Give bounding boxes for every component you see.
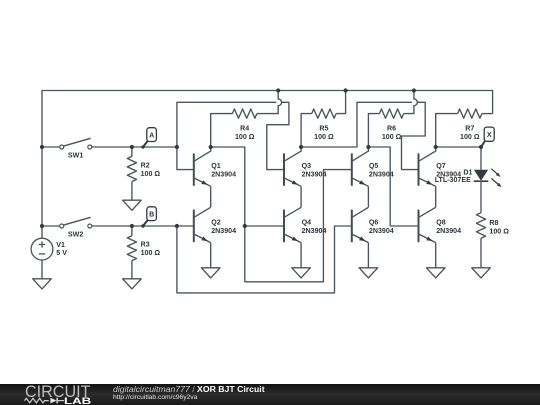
ground below Q4 (292, 268, 311, 278)
svg-text:100 Ω: 100 Ω (460, 133, 480, 141)
svg-text:2N3904: 2N3904 (369, 227, 394, 235)
svg-text:100 Ω: 100 Ω (489, 228, 509, 236)
ground below Q6 (359, 268, 378, 278)
svg-text:2N3904: 2N3904 (211, 171, 236, 179)
wire Q5 collector to Q8 base (368, 147, 418, 226)
svg-text:V1: V1 (56, 241, 65, 249)
svg-text:Q7: Q7 (436, 162, 446, 170)
ground below R2 (123, 200, 142, 210)
resistor R7 (436, 109, 493, 147)
wire Q7 emitter to Q8 collector (435, 186, 437, 207)
svg-text:2N3904: 2N3904 (211, 227, 236, 235)
resistor R6 (368, 91, 417, 148)
svg-text:B: B (149, 211, 154, 219)
wire Q1 emitter to Q2 collector (210, 186, 212, 207)
node B flag (143, 207, 156, 226)
svg-text:R5: R5 (319, 125, 328, 133)
wire Q3 collector to Q7 base (301, 102, 412, 147)
switch SW1 (60, 138, 92, 149)
transistor Q4 (284, 207, 301, 242)
ground below Q8 (426, 268, 445, 278)
svg-text:Q2: Q2 (211, 218, 221, 226)
svg-text:R8: R8 (489, 219, 498, 227)
svg-text:SW1: SW1 (68, 151, 83, 159)
wire Q5 emitter to Q6 collector (367, 186, 369, 207)
svg-text:R3: R3 (141, 241, 150, 249)
ground below R3 (123, 279, 142, 289)
wire node B segment (92, 225, 194, 227)
svg-text:2N3904: 2N3904 (302, 171, 327, 179)
voltage source V1 (31, 238, 53, 260)
svg-text:LTL-307EE: LTL-307EE (435, 176, 471, 184)
resistor R4 (211, 91, 282, 148)
wire top power rail (42, 91, 493, 148)
footer bar (0, 384, 540, 405)
wire node A segment (92, 146, 177, 148)
wire Q8 emitter to ground (435, 243, 437, 268)
resistor R5 (301, 91, 346, 148)
svg-text:Q1: Q1 (211, 162, 221, 170)
ground below V1 (33, 279, 52, 289)
transistor Q2 (194, 207, 211, 242)
resistor R3 (127, 226, 136, 279)
wire node B to Q6 base (177, 226, 352, 293)
wire SW2 input segment (42, 225, 60, 227)
svg-text:Q5: Q5 (369, 162, 379, 170)
transistor Q8 (419, 207, 436, 242)
transistor Q5 (352, 147, 369, 186)
svg-text:LAB: LAB (64, 395, 92, 405)
switch SW2 (60, 217, 92, 228)
wire node A to Q3 base (177, 102, 276, 147)
svg-text:X: X (487, 131, 492, 139)
wire V1 to ground (41, 260, 43, 279)
transistor Q3 (284, 147, 301, 186)
wire Q2 emitter to ground (210, 243, 212, 268)
svg-text:2N3904: 2N3904 (436, 227, 461, 235)
svg-text:R6: R6 (387, 125, 396, 133)
svg-text:2N3904: 2N3904 (302, 227, 327, 235)
resistor R8 (476, 181, 485, 268)
svg-text:100 Ω: 100 Ω (314, 133, 334, 141)
wire left supply rail (41, 147, 43, 238)
ground below Q2 (201, 268, 220, 278)
CircuitLab logo (23, 384, 113, 405)
wire Q6 emitter to ground (367, 243, 369, 268)
node A flag (143, 128, 156, 147)
svg-text:100 Ω: 100 Ω (235, 133, 255, 141)
transistor Q6 (352, 207, 369, 242)
wire Q3 emitter to Q4 collector (300, 186, 302, 207)
svg-text:SW2: SW2 (68, 230, 83, 238)
LED D1 (474, 169, 502, 187)
svg-text:Q6: Q6 (369, 218, 379, 226)
wire Q1 collector to Q4 base / Q5 base (211, 147, 352, 282)
svg-text:R4: R4 (240, 125, 249, 133)
resistor R2 (127, 147, 136, 200)
transistor Q7 (419, 147, 436, 186)
svg-text:R7: R7 (465, 125, 474, 133)
wire node A to Q1 base (177, 147, 194, 170)
wire Q4 emitter to ground (300, 243, 302, 268)
svg-text:100 Ω: 100 Ω (382, 133, 402, 141)
wire SW1 input segment (42, 146, 60, 148)
svg-text:Q4: Q4 (302, 218, 312, 226)
node X flag (481, 127, 494, 147)
svg-text:100 Ω: 100 Ω (141, 249, 161, 257)
footer credits text (113, 385, 265, 394)
wire Q7 collector to D1 (436, 147, 481, 170)
transistor Q1 (194, 147, 211, 186)
svg-text:5 V: 5 V (56, 249, 67, 257)
ground below R8 (472, 268, 491, 278)
svg-text:A: A (149, 131, 154, 139)
svg-text:Q3: Q3 (302, 162, 312, 170)
svg-text:R2: R2 (141, 162, 150, 170)
svg-text:100 Ω: 100 Ω (141, 170, 161, 178)
svg-text:Q8: Q8 (436, 218, 446, 226)
